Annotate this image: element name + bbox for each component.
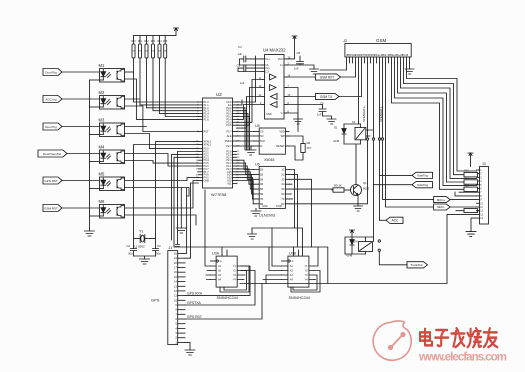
wire M4 emitter to U2	[125, 161, 199, 164]
wire enable rail	[207, 247, 328, 284]
wire M6 collector to U2	[125, 181, 199, 209]
wire J2 to J3 bundle	[398, 63, 477, 182]
svg-text:GSM RST: GSM RST	[44, 207, 58, 211]
ground J3	[466, 232, 476, 237]
capacitor C3 30p	[153, 244, 162, 256]
svg-text:Q1: Q1	[363, 181, 367, 185]
svg-text:5B: 5B	[260, 188, 263, 191]
IC U5 X5045 watchdog	[254, 124, 290, 162]
svg-text:ACC: ACC	[392, 219, 399, 223]
svg-text:K1: K1	[352, 120, 356, 124]
svg-text:U4 MAX232: U4 MAX232	[263, 48, 286, 53]
svg-text:U2: U2	[216, 92, 222, 97]
svg-text:C2-: C2-	[265, 71, 269, 74]
wire relay rail top	[344, 123, 360, 125]
wire M3 emitter to U2	[125, 134, 199, 149]
svg-text:J1: J1	[169, 246, 173, 250]
wire relay2 rail top	[345, 237, 374, 254]
wire U2 to U5	[237, 131, 254, 133]
wire U2 P0 feeds down	[237, 108, 250, 150]
port SideTrig1	[412, 172, 433, 178]
wire pullup R12 to U2 pin	[147, 58, 199, 108]
wire MicIn- to J3	[450, 206, 476, 208]
svg-text:1C: 1C	[281, 169, 284, 172]
wire port6 to M6	[62, 207, 100, 209]
svg-text:GSM RXT: GSM RXT	[320, 75, 335, 79]
relay K1 coil	[352, 120, 366, 144]
wire J1 pin1 to ground	[185, 342, 190, 350]
svg-text:GSM TX: GSM TX	[320, 95, 333, 99]
wire M1 collector to R10 column	[125, 71, 134, 73]
svg-text:C5: C5	[237, 64, 241, 68]
svg-text:J3: J3	[482, 162, 486, 166]
resistor small J3 row	[464, 209, 478, 213]
svg-text:C1+: C1+	[265, 58, 270, 61]
svg-text:R8: R8	[307, 141, 311, 145]
svg-text:C4: C4	[238, 45, 242, 49]
svg-text:DoorOpenSw: DoorOpenSw	[43, 152, 62, 156]
port MicIn-	[434, 204, 451, 210]
svg-text:4148: 4148	[333, 139, 340, 143]
svg-text:DoorTrig: DoorTrig	[45, 125, 57, 129]
ground C9	[327, 119, 336, 124]
wire J2 mic1	[383, 63, 434, 200]
wire U2 to U5	[237, 140, 254, 142]
svg-text:R14: R14	[157, 41, 162, 43]
wire M5 collector to U2	[125, 178, 199, 181]
wire ACC	[380, 219, 387, 221]
wire pullup R13 to U2 pin	[153, 58, 199, 111]
terminal circle spk1-	[372, 138, 374, 140]
svg-text:P2.7: P2.7	[226, 145, 232, 148]
wire GPS RST	[185, 284, 262, 320]
svg-text:MicIn-: MicIn-	[437, 205, 445, 209]
svg-text:WP: WP	[281, 135, 285, 138]
wire port5 to M5	[62, 180, 100, 182]
wire U5 reset	[289, 146, 303, 160]
wire MicIn+ to J3	[450, 199, 476, 201]
wire crystal right node to U2 XTAL2	[145, 142, 199, 249]
IC U6 ULN2803 driver	[254, 163, 290, 218]
svg-text:VCC: VCC	[278, 58, 283, 61]
transistor Q1 9013	[351, 181, 370, 196]
svg-text:SideTrig: SideTrig	[417, 183, 428, 187]
svg-text:10K: 10K	[132, 51, 136, 53]
wire U2 to U6	[237, 178, 254, 199]
svg-text:GSM: GSM	[376, 38, 387, 43]
wire U4 pin13 to port	[287, 96, 316, 98]
wire U2 to U6	[237, 169, 254, 184]
svg-text:R16: R16	[465, 171, 470, 173]
wire U2 to U4	[237, 105, 263, 120]
wire M6 cathode to ground rail	[90, 215, 104, 217]
svg-text:2B: 2B	[260, 173, 263, 176]
wire U6 outputs down	[290, 170, 312, 248]
svg-text:www.elecfans.com: www.elecfans.com	[418, 352, 507, 364]
ground Q1	[354, 206, 363, 211]
wire U2 to U4	[237, 80, 263, 123]
wire M1 cathode to ground rail	[90, 79, 104, 81]
input port DoorOpenSw	[38, 150, 67, 157]
wire U2 to U4	[237, 97, 263, 129]
svg-text:10K: 10K	[151, 51, 155, 53]
ground J1	[185, 350, 195, 355]
port GSM TX	[316, 93, 340, 99]
svg-text:R18: R18	[465, 185, 470, 187]
svg-text:DoorTrig: DoorTrig	[45, 71, 57, 75]
svg-text:PSEN: PSEN	[225, 140, 232, 143]
wire U2 row filler	[172, 154, 199, 240]
wire M2 emitter to U2	[125, 106, 199, 132]
svg-text:C2: C2	[127, 244, 131, 248]
svg-text:W77E58: W77E58	[211, 192, 227, 197]
wire port to J2 tx	[339, 63, 362, 97]
wire M1 emitter to U2	[125, 79, 199, 119]
svg-text:SideTrig: SideTrig	[417, 174, 428, 178]
wire pullup R14 to U2 pin	[160, 58, 199, 114]
svg-text:D1: D1	[334, 126, 338, 130]
svg-text:MicIn+: MicIn+	[437, 198, 446, 202]
wire U2 to J1 pin20	[185, 188, 187, 254]
svg-text:M4: M4	[99, 144, 105, 149]
wire J2 left pin1	[320, 63, 347, 70]
port TrunkOut	[407, 262, 428, 268]
svg-text:R9 1K: R9 1K	[334, 184, 342, 188]
wire U4 GND pin15	[284, 113, 298, 119]
wire M6 emitter	[125, 215, 197, 225]
VCC rail top	[134, 28, 177, 36]
wire U4 VCC	[287, 36, 295, 59]
svg-text:30p: 30p	[156, 252, 161, 256]
optocoupler M1	[99, 63, 125, 82]
wire U3B inputs left	[263, 228, 282, 284]
svg-text:U5: U5	[255, 124, 260, 128]
svg-text:4K7: 4K7	[307, 146, 312, 150]
wire M3 collector to R12 column	[125, 126, 147, 128]
svg-text:X5045: X5045	[264, 158, 274, 162]
svg-text:R11: R11	[138, 41, 143, 43]
wire U2 EA stub	[237, 100, 243, 105]
wire GPS TXA	[185, 271, 255, 306]
svg-text:VBAT GND RXD TXD DTR SPK1+ SPK: VBAT GND RXD TXD DTR SPK1+ SPK1- SPK2+ M…	[346, 53, 408, 57]
wire U2 to U4	[237, 88, 263, 126]
capacitor C4 1uF	[238, 45, 263, 65]
port GSM RXT	[316, 74, 341, 80]
wire M2 collector to R11 column	[125, 98, 141, 100]
svg-text:U6: U6	[255, 163, 260, 167]
wire pullup R15 to U2 pin	[165, 58, 198, 117]
svg-text:A11: A11	[227, 182, 232, 185]
svg-text:10K: 10K	[138, 51, 142, 53]
svg-text:R10: R10	[131, 41, 136, 43]
wire J2 mic2	[386, 63, 434, 207]
wire M3 cathode to ground rail	[90, 134, 104, 136]
svg-text:RESET: RESET	[276, 145, 285, 148]
op-amp U4 MAX232	[259, 48, 291, 120]
ground C8	[310, 69, 319, 74]
wire U3A inputs left	[205, 190, 211, 280]
wire U3A output loop	[220, 266, 249, 292]
optocoupler M2	[99, 90, 125, 109]
ground U2	[176, 228, 186, 233]
svg-text:6C: 6C	[281, 193, 284, 196]
svg-text:GND: GND	[204, 180, 210, 183]
wire M4 cathode to ground rail	[90, 161, 104, 163]
ground U5	[246, 146, 256, 155]
svg-text:GPS: GPS	[151, 298, 160, 303]
wire J2 to J3 bundle	[404, 63, 477, 175]
wire J3 bottom to ground	[471, 218, 477, 232]
svg-text:SI: SI	[260, 145, 263, 148]
wire U2 to U5	[237, 145, 254, 147]
terminal circle spk2	[378, 138, 380, 140]
optocoupler M4	[99, 144, 125, 163]
wire port1 to M1	[62, 71, 100, 73]
wire row7 stub	[455, 192, 477, 196]
wire U2 to U5	[237, 135, 254, 137]
diode D4 4148	[346, 237, 358, 258]
svg-text:D4: D4	[354, 240, 358, 244]
svg-text:R12: R12	[144, 41, 149, 43]
svg-text:P1.6: P1.6	[204, 118, 210, 121]
ground crystal	[140, 259, 150, 264]
wire J2 to J3 bundle	[395, 63, 477, 186]
VCC symbol U4	[292, 36, 297, 39]
wire relay rail bottom	[344, 144, 360, 185]
wire M2 cathode to ground rail	[90, 106, 104, 108]
ground symbol left column	[85, 228, 95, 236]
wire U4 pin7 to X5045	[287, 88, 298, 132]
wire pullup R11 to U2 pin	[140, 58, 199, 105]
resistor R12 pullup	[146, 36, 148, 44]
svg-text:M5: M5	[99, 171, 105, 176]
wire J2 speaker1+	[292, 63, 368, 204]
optocoupler M6	[99, 199, 125, 218]
capacitor C5 1uF	[237, 64, 263, 86]
svg-text:8C: 8C	[281, 203, 284, 206]
svg-text:COM: COM	[276, 205, 282, 208]
svg-text:7B: 7B	[260, 198, 263, 201]
resistor R8 4K7	[289, 136, 312, 158]
svg-text:GND: GND	[262, 205, 268, 208]
svg-text:4B: 4B	[260, 183, 263, 186]
svg-text:R13: R13	[151, 41, 156, 43]
wire U2 row to enable rail	[174, 157, 207, 247]
port MicIn+	[434, 197, 451, 203]
svg-text:GPS RXA: GPS RXA	[187, 292, 203, 296]
svg-text:U3A: U3A	[212, 252, 220, 256]
svg-text:SO: SO	[260, 135, 264, 138]
svg-text:VDD: VDD	[279, 131, 284, 134]
VCC symbol top	[174, 28, 179, 31]
port ACC	[386, 217, 403, 223]
input port ACC Inp	[43, 96, 62, 103]
input port DoorTrig	[43, 69, 62, 76]
wire U2 VCC up	[237, 56, 256, 102]
wire U2 to U6	[237, 166, 254, 179]
wire M4 collector to U2	[125, 154, 199, 167]
wire relay2 contact out	[379, 252, 407, 265]
connector J3	[477, 162, 489, 224]
svg-text:10K: 10K	[163, 51, 167, 53]
wire U2 to U6	[237, 163, 254, 174]
wire crystal left node to U2 XTAL1	[134, 145, 199, 249]
svg-text:RST: RST	[204, 131, 209, 134]
svg-text:V+: V+	[280, 64, 284, 67]
wire GPS RXA	[185, 266, 250, 296]
wire net y228	[252, 228, 303, 256]
ground U4	[294, 119, 303, 124]
svg-text:GND: GND	[266, 113, 272, 116]
resistor R17 series J3	[464, 180, 478, 184]
wire U2 to U6	[237, 172, 254, 189]
svg-text:SN54HC244: SN54HC244	[217, 296, 238, 300]
wire U3B output loops	[291, 247, 320, 292]
wire bottom loop to J3	[240, 214, 477, 283]
wire U4 pin14 to port	[287, 76, 316, 78]
svg-text:1uF: 1uF	[238, 52, 243, 56]
wire port2 to M2	[62, 98, 100, 100]
svg-text:6B: 6B	[260, 193, 263, 196]
svg-text:C8: C8	[297, 51, 301, 55]
resistor R18 series J3	[464, 187, 478, 191]
capacitor C9	[287, 102, 332, 120]
svg-text:R15: R15	[163, 41, 168, 43]
svg-text:M6: M6	[99, 199, 105, 204]
wire Q1 emitter ground	[357, 195, 360, 207]
capacitor C2 30p	[127, 244, 137, 256]
buffer U3A SN54HC244	[211, 247, 243, 300]
svg-text:2C: 2C	[281, 173, 284, 176]
svg-text:CS: CS	[260, 131, 264, 134]
svg-text:3C: 3C	[281, 178, 284, 181]
crystal Y1	[134, 230, 145, 249]
svg-text:11.0592: 11.0592	[134, 245, 145, 249]
ground J2	[405, 69, 414, 74]
wire U2 to U6	[237, 175, 254, 194]
svg-text:ALE: ALE	[227, 135, 232, 138]
wire port3 to M3	[62, 126, 100, 128]
wire SideTrig2	[374, 184, 413, 186]
optocoupler M5	[99, 171, 125, 190]
resistor R14 pullup	[159, 36, 161, 44]
wire J2 to J3 bundle	[392, 63, 477, 189]
svg-text:G: G	[220, 260, 222, 263]
svg-text:U3B: U3B	[289, 252, 297, 256]
wire J2 ground pin	[409, 63, 411, 69]
wire J1 pin19 up	[185, 183, 199, 258]
wire relay2 rail bottom	[345, 253, 366, 255]
svg-text:SN54HC244: SN54HC244	[289, 296, 310, 300]
svg-text:R17: R17	[465, 178, 470, 180]
svg-text:Y1: Y1	[139, 230, 143, 234]
wire U2 GND down	[180, 188, 182, 228]
svg-text:M2: M2	[99, 90, 105, 95]
resistor R16 series J3	[464, 173, 478, 177]
svg-text:GPS RST: GPS RST	[187, 315, 202, 319]
optocoupler M3	[99, 117, 125, 136]
wire C8 to ground	[300, 65, 314, 69]
wire port to J2	[341, 63, 356, 77]
resistor R9	[290, 184, 351, 193]
svg-text:7C: 7C	[281, 198, 284, 201]
svg-text:30p: 30p	[128, 252, 133, 256]
svg-text:GPSTXA: GPSTXA	[187, 301, 201, 305]
svg-text:XTAL1: XTAL1	[204, 144, 212, 147]
connector J2 GSM module	[343, 38, 411, 63]
wire pullup R10 to U2 pin	[134, 58, 199, 102]
ground net228	[248, 228, 257, 239]
op U2 microcontroller W77E58	[196, 92, 240, 197]
wire U2 to U6	[237, 160, 254, 169]
wire crystal caps common	[134, 256, 156, 259]
svg-text:1uF: 1uF	[294, 67, 299, 71]
relay K2 coil	[359, 242, 373, 255]
wire J2 to J3 bundle	[401, 63, 477, 178]
wire port4 to M4	[67, 153, 100, 155]
svg-text:10K: 10K	[145, 51, 149, 53]
resistor R15 pullup	[164, 36, 166, 44]
ground rail left column	[89, 80, 91, 228]
svg-text:ACC Inp: ACC Inp	[45, 98, 57, 102]
svg-text:M3: M3	[99, 117, 105, 122]
wire U2 P3 row to RST cap	[176, 152, 199, 247]
svg-text:GPS RST: GPS RST	[44, 179, 57, 183]
svg-text:P0.6: P0.6	[226, 124, 232, 127]
svg-text:4C: 4C	[281, 183, 284, 186]
input port GPS RST	[43, 177, 62, 184]
buffer U3B SN54HC244	[282, 247, 315, 300]
svg-text:3B: 3B	[260, 178, 263, 181]
wire J2 speaker1-	[373, 63, 375, 242]
VCC symbol relay2	[350, 230, 355, 237]
relay2 contact circles	[378, 240, 380, 242]
svg-text:M1: M1	[99, 63, 105, 68]
resistor R10 pullup	[133, 36, 135, 44]
svg-text:ULN2003: ULN2003	[259, 214, 275, 218]
svg-text:5C: 5C	[281, 188, 284, 191]
svg-text:G: G	[292, 260, 294, 263]
svg-text:SCK: SCK	[260, 140, 265, 143]
wire U2 to U6	[237, 181, 254, 204]
wire J2 spk2	[379, 63, 381, 220]
svg-text:SPEAKER1+: SPEAKER1+	[362, 105, 366, 122]
connector J1 GPS	[168, 246, 185, 345]
terminal circle spk1+	[366, 138, 368, 140]
ground U6	[251, 208, 261, 216]
resistor R13 pullup	[152, 36, 154, 44]
svg-text:9013: 9013	[363, 187, 370, 191]
svg-text:P0.7: P0.7	[226, 131, 232, 134]
resistor R11 pullup	[139, 36, 141, 44]
input port DoorTrig2	[43, 123, 62, 130]
svg-text:1uF: 1uF	[240, 81, 245, 85]
svg-text:TrunkOut: TrunkOut	[411, 263, 423, 267]
terminal circle mic1	[381, 138, 383, 140]
watermark logo circle	[373, 321, 411, 360]
wire J2 relay feed	[358, 63, 360, 124]
svg-text:1uF: 1uF	[317, 113, 322, 117]
svg-text:1B: 1B	[260, 169, 263, 172]
svg-text:C3: C3	[157, 244, 161, 248]
svg-text:V-: V-	[281, 112, 284, 115]
diode D1 4148	[333, 124, 346, 144]
input port GSM RST	[43, 205, 62, 212]
capacitor C8 1uF	[287, 51, 304, 71]
port SideTrig2	[412, 182, 433, 188]
wire relay contacts	[366, 130, 373, 136]
wire M5 cathode to ground rail	[90, 188, 104, 190]
